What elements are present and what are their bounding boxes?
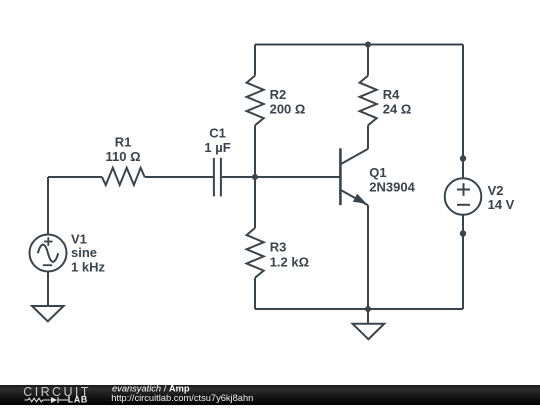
svg-text:R1: R1 <box>115 134 132 149</box>
svg-text:R2: R2 <box>270 87 287 102</box>
wire V1 top lead <box>47 177 49 235</box>
resistor R4 <box>360 76 377 126</box>
svg-text:evansyatich / Amp: evansyatich / Amp <box>112 383 190 393</box>
svg-text:24 Ω: 24 Ω <box>383 102 412 117</box>
wire mid-ground stub <box>367 309 369 324</box>
logo diode triangle <box>51 397 57 403</box>
svg-text:110 Ω: 110 Ω <box>105 149 140 164</box>
junction node bottom rail <box>365 306 371 312</box>
resistor R1 <box>102 168 145 185</box>
svg-text:14 V: 14 V <box>488 197 515 212</box>
svg-text:LAB: LAB <box>68 394 88 404</box>
svg-text:http://circuitlab.com/ctsu7y6k: http://circuitlab.com/ctsu7y6kj8ahn <box>111 393 253 403</box>
wire right rail upper <box>462 45 464 159</box>
svg-text:200 Ω: 200 Ω <box>270 102 306 117</box>
capacitor C1 <box>214 158 221 197</box>
wire R4 bottom to collector <box>367 125 369 149</box>
wire V2 bottom lead <box>462 215 464 234</box>
svg-text:C1: C1 <box>209 125 226 140</box>
resistor R3 <box>247 228 264 278</box>
wire emitter down <box>367 205 369 309</box>
svg-text:Q1: Q1 <box>369 165 386 180</box>
svg-text:1 kHz: 1 kHz <box>71 259 105 274</box>
logo resistor-diode symbol <box>24 397 68 403</box>
svg-text:V1: V1 <box>71 231 87 246</box>
wire C1 to Q1 base <box>222 176 341 178</box>
svg-text:1.2 kΩ: 1.2 kΩ <box>270 254 309 269</box>
wire R3 top lead <box>254 177 256 228</box>
source V2 <box>445 178 482 215</box>
wire top rail <box>255 44 463 46</box>
junction node base <box>252 174 258 180</box>
resistor R2 <box>247 76 264 126</box>
footer bar <box>0 385 540 405</box>
svg-text:sine: sine <box>71 245 97 260</box>
svg-text:1 µF: 1 µF <box>204 140 230 155</box>
ground middle <box>353 324 385 339</box>
svg-text:R4: R4 <box>383 87 400 102</box>
junction node top rail <box>365 42 371 48</box>
wire input left horizontal <box>48 176 102 178</box>
wire R2 bottom lead to node <box>254 125 256 177</box>
terminal dot V2 bottom <box>460 230 466 236</box>
wire R3 bottom lead <box>254 278 256 309</box>
wire V2 top lead <box>462 159 464 179</box>
wire V1 bottom lead <box>47 272 49 307</box>
svg-text:V2: V2 <box>488 183 504 198</box>
ground left <box>32 306 64 321</box>
wire right rail lower <box>462 234 464 310</box>
wire bottom rail <box>255 308 463 310</box>
terminal dot V2 top <box>460 155 466 161</box>
source V1 <box>30 235 67 272</box>
wire R2 top lead <box>254 45 256 76</box>
wire R4 top lead <box>367 45 369 76</box>
svg-text:2N3904: 2N3904 <box>369 180 415 195</box>
wire R1 to C1 <box>145 176 214 178</box>
svg-text:R3: R3 <box>270 240 287 255</box>
transistor Q1 <box>340 148 368 205</box>
